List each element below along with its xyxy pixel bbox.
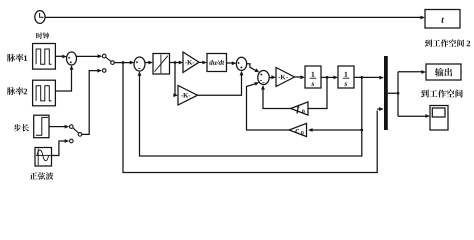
sum block sum1 (input comparator) [134, 57, 145, 71]
gain block 1 (-K-) [183, 52, 199, 73]
wire switch1 to sum1 with branch junction [114, 62, 130, 64]
wire sum3 to gain3 [269, 77, 272, 79]
wire velocity branch down to f0 gain [309, 77, 328, 108]
wire integrator2 to mux with junction [354, 76, 380, 78]
label 正弦波 (sine wave) [30, 172, 54, 180]
manual switch 1 (source selector) [102, 54, 114, 72]
derivative block du/dt [207, 54, 227, 72]
pulse generator 1 block [33, 44, 56, 70]
wire to scope block [398, 115, 426, 117]
clock source block [35, 11, 45, 24]
integrator block 1 (1/s) [305, 66, 321, 88]
gain block 2 (-K-) [178, 86, 198, 106]
wire step to switch2 upper terminal [49, 126, 65, 128]
pulse generator 2 block [33, 80, 56, 106]
wire position branch down to c0 gain with junction [311, 77, 362, 130]
wire gain1 to derivative [199, 61, 203, 63]
wire gain3 to integrator1 [295, 76, 302, 78]
wire f0 output to sum3 bottom [263, 87, 291, 109]
wire switch2 output up to switch1 lower terminal [82, 71, 98, 135]
label 到工作空间 (to workspace) [421, 90, 463, 98]
feedback gain c0 [289, 123, 307, 136]
sum block sum3 [258, 71, 269, 85]
gain block 3 (-K-) [276, 68, 295, 87]
sum circle sum0 (pulse adder) [67, 52, 77, 65]
sine wave source block [35, 148, 52, 167]
wire input signal outer feedback path to mux [123, 63, 377, 173]
wire integrator1 to integrator2 with junction [321, 76, 335, 78]
wire sum1 to saturation [145, 62, 150, 64]
to-workspace-2 block (time t) [425, 10, 460, 29]
label 到工作空间 2 (to workspace 2) [425, 39, 470, 47]
wire derivative to sum2 [227, 62, 233, 64]
wire sum2 to sum3 dogleg [247, 64, 257, 71]
wire sum0 to switch1 upper terminal [77, 55, 98, 57]
wire sine to switch2 lower terminal [52, 141, 65, 156]
label 时钟 (clock) [36, 32, 49, 38]
wire to output workspace block [398, 71, 422, 73]
wire pulse2 to sum0 bottom [55, 67, 71, 91]
wire pulse1 to sum0 [55, 55, 62, 57]
label 脉率 1 (pulse rate 1) [7, 54, 27, 62]
step source block [34, 115, 49, 138]
label 步长 (step size) [14, 124, 29, 132]
to-workspace block 输出 (output) [426, 64, 461, 80]
scope block [430, 106, 448, 131]
saturation block [153, 54, 170, 75]
label 脉率 2 (pulse rate 2) [7, 87, 27, 95]
wire clock to workspace2 block [45, 16, 421, 18]
manual switch 2 (step/sine selector) [70, 125, 82, 143]
mux bar [384, 56, 388, 130]
sum block sum2 [236, 57, 246, 70]
integrator block 2 (1/s) [338, 66, 354, 88]
feedback gain f0 [291, 102, 308, 115]
wire position feedback into sum1 bottom [140, 73, 362, 156]
wire mux output with branch junction [388, 72, 398, 117]
wire saturation to gain1 with branch junction [169, 62, 180, 64]
wire branch down to gain2 input [174, 63, 177, 96]
wire gain2 to sum2 bottom [198, 72, 242, 95]
wire c0 output to sum3 lower-left dogleg [247, 84, 290, 131]
